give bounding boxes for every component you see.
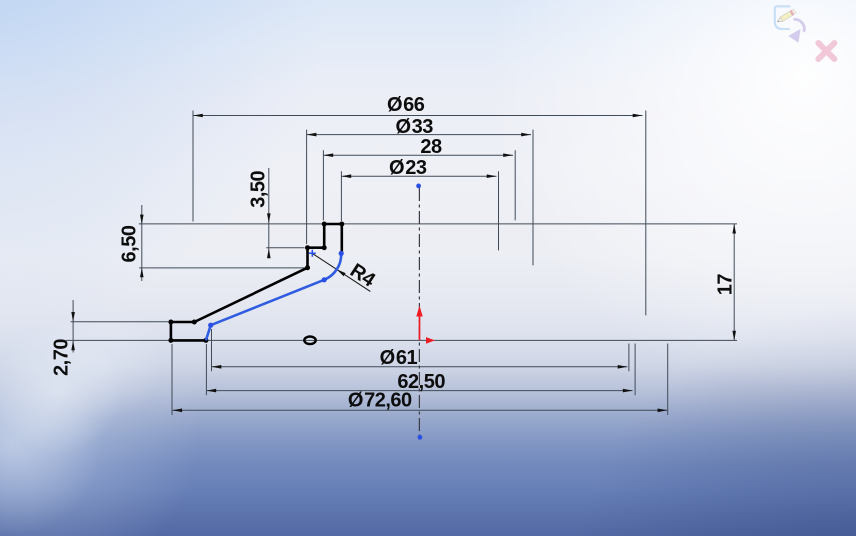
centerline endpoint top bbox=[416, 184, 421, 189]
dimension 17 arrows bbox=[732, 224, 736, 341]
confirmation corner sketch bracket bbox=[775, 6, 791, 29]
dimension D66 line bbox=[193, 115, 643, 117]
profile outline (black) bbox=[171, 224, 342, 340]
confirmation corner pencil bbox=[776, 9, 796, 24]
dimension 6,50 line bbox=[139, 205, 304, 281]
dimension D61 arrows bbox=[212, 365, 628, 369]
dimension D61 line bbox=[212, 366, 628, 368]
dimension D23 extension lines bbox=[341, 171, 498, 250]
svg-text:6,50: 6,50 bbox=[119, 225, 141, 262]
dimension 28 line bbox=[323, 154, 513, 156]
dimension D23 arrows bbox=[341, 174, 496, 178]
dimension R4 arrow bbox=[337, 269, 346, 276]
svg-text:Ø 61: Ø 61 bbox=[380, 347, 418, 369]
svg-text:Ø 33: Ø 33 bbox=[395, 116, 433, 138]
dimension 2,70 arrows bbox=[71, 312, 75, 350]
vertical centerline (dash-dot) bbox=[418, 188, 420, 436]
origin horizontal arrow (red) bbox=[426, 337, 435, 344]
dimension D33 extension lines bbox=[307, 130, 533, 266]
svg-text:Ø 72,60: Ø 72,60 bbox=[348, 390, 412, 412]
dimension 28 arrows bbox=[323, 153, 513, 157]
dimension D61 extension lines bbox=[212, 329, 629, 371]
dimension D66 extension lines bbox=[193, 111, 646, 316]
origin vertical arrow (red) bbox=[416, 306, 422, 341]
svg-text:3,50: 3,50 bbox=[248, 170, 270, 207]
dimension 62,50 extension lines bbox=[206, 344, 635, 396]
svg-text:17: 17 bbox=[715, 274, 737, 296]
bottom face / axis line bbox=[66, 339, 737, 341]
confirmation corner redo arrow (purple) bbox=[788, 19, 804, 42]
blue sketch profile bbox=[206, 253, 341, 340]
dimension 28 extension lines bbox=[323, 150, 515, 220]
ellipse marker on axis bbox=[304, 337, 315, 345]
dimension D72,60 line bbox=[172, 409, 667, 411]
dimension R4 leader bbox=[313, 254, 371, 292]
arc center mark (blue plus) bbox=[309, 250, 316, 257]
dimension D23 line bbox=[341, 175, 496, 177]
blue sketch vertex points bbox=[208, 251, 344, 328]
profile vertex points bbox=[168, 222, 344, 343]
dimension D33 line bbox=[307, 134, 531, 136]
dimension 2,70 line bbox=[71, 300, 169, 353]
confirmation corner cancel X (pink) bbox=[818, 43, 834, 59]
dimension D66 arrows bbox=[193, 114, 643, 118]
dimension D33 arrows bbox=[307, 133, 531, 137]
dimension 17 line bbox=[733, 224, 735, 341]
dimension 3,50 arrows bbox=[267, 213, 271, 258]
dimension 3,50 line bbox=[266, 168, 304, 258]
dimension D72,60 extension lines bbox=[172, 344, 668, 416]
dimension D72,60 arrows bbox=[172, 409, 667, 413]
svg-text:R4: R4 bbox=[346, 260, 380, 293]
centerline endpoint bottom bbox=[418, 435, 423, 440]
svg-text:Ø 23: Ø 23 bbox=[389, 157, 427, 179]
svg-text:Ø 66: Ø 66 bbox=[387, 94, 425, 116]
svg-text:2,70: 2,70 bbox=[51, 339, 73, 376]
dimension 6,50 arrows bbox=[140, 215, 144, 278]
top face extension line bbox=[139, 223, 737, 225]
svg-text:28: 28 bbox=[420, 136, 442, 158]
dimension 62,50 arrows bbox=[206, 389, 632, 393]
dimension 62,50 line bbox=[206, 390, 632, 392]
